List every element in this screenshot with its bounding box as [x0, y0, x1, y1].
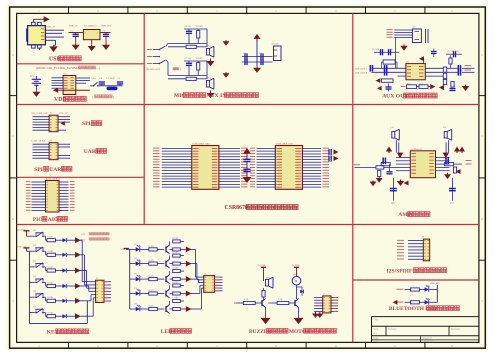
svg-text:AUX_OUT_L: AUX_OUT_L — [355, 67, 368, 70]
svg-text:R 470: R 470 — [149, 260, 154, 262]
svg-text:A: A — [481, 299, 483, 303]
svg-text:LS2: LS2 — [443, 127, 446, 129]
svg-text:B: B — [481, 217, 483, 221]
svg-text:LS1: LS1 — [391, 127, 394, 129]
svg-text:C12 104: C12 104 — [372, 49, 379, 51]
svg-text:I2S/SPDIF: I2S/SPDIF — [387, 268, 413, 274]
svg-text:[K1:MIC/AUX: [K1:MIC/AUX — [146, 68, 161, 71]
svg-text:R3 2K2: R3 2K2 — [196, 26, 203, 28]
svg-text:R 470: R 470 — [149, 305, 154, 307]
svg-text:R 10K: R 10K — [173, 252, 179, 254]
svg-text:M1: M1 — [293, 274, 296, 276]
svg-text:C17 104 X5R: C17 104 X5R — [447, 51, 459, 53]
svg-text:Drawn By:: Drawn By: — [423, 340, 434, 343]
svg-text:C22: C22 — [391, 203, 394, 205]
svg-text:R4 2K2: R4 2K2 — [196, 58, 203, 60]
svg-text:BT1: BT1 — [30, 76, 34, 78]
svg-text:R 1K: R 1K — [244, 299, 249, 301]
svg-text:VDD_3V3: VDD_3V3 — [101, 26, 112, 28]
svg-text:File:: File: — [374, 340, 379, 343]
svg-text:J9: J9 — [422, 237, 424, 239]
svg-text:R 10K: R 10K — [173, 298, 179, 300]
svg-text:VDD_3V3: VDD_3V3 — [59, 113, 70, 115]
svg-text:SPI: SPI — [82, 121, 91, 127]
svg-text:AUX IN: AUX IN — [206, 93, 227, 99]
svg-text:D1: D1 — [135, 244, 137, 246]
svg-text:R 10K: R 10K — [48, 267, 54, 269]
svg-text:C7 104: C7 104 — [185, 58, 191, 60]
svg-text:MIC2: MIC2 — [206, 77, 211, 79]
svg-text:USB_5V: USB_5V — [69, 26, 78, 28]
svg-text:Revision: Revision — [451, 328, 461, 331]
svg-text:2: 2 — [97, 33, 98, 35]
svg-text:C10: C10 — [243, 53, 246, 55]
svg-text:[R9-0R: CSR_3V3/SPK_5V/VBAT: [R9-0R: CSR_3V3/SPK_5V/VBAT — [36, 66, 79, 70]
svg-text:R 470: R 470 — [149, 246, 154, 248]
svg-text:C: C — [12, 134, 14, 138]
svg-text:R 10K: R 10K — [48, 282, 54, 284]
svg-text:D4: D4 — [135, 288, 137, 290]
svg-text:J2 HEADER 15X2: J2 HEADER 15X2 — [276, 142, 294, 145]
svg-text:BZ1: BZ1 — [266, 277, 270, 279]
svg-text:Size: Size — [374, 328, 379, 331]
svg-text:K2: K2 — [34, 230, 36, 232]
svg-text:R 470: R 470 — [149, 276, 154, 278]
svg-text:R 10K: R 10K — [48, 297, 54, 299]
svg-text:R11: R11 — [390, 49, 393, 51]
svg-text:R 10K: R 10K — [173, 268, 179, 270]
svg-text:R14: R14 — [420, 83, 423, 85]
svg-text:SW1: SW1 — [92, 78, 96, 80]
svg-text:]: ] — [113, 95, 114, 99]
svg-text:UART_TX RX: UART_TX RX — [32, 140, 46, 143]
svg-text:Number: Number — [388, 328, 397, 331]
svg-text:R13: R13 — [407, 83, 410, 85]
svg-text:U4 TPA6112: U4 TPA6112 — [411, 148, 422, 151]
svg-text:VDD_3V3: VDD_3V3 — [430, 283, 441, 285]
svg-text:J6 HEADER 11: J6 HEADER 11 — [46, 177, 60, 180]
svg-text:A: A — [12, 299, 14, 303]
svg-text:J1 HEADER 15X2: J1 HEADER 15X2 — [192, 142, 210, 145]
svg-text:J10: J10 — [413, 27, 416, 29]
svg-text:Title: Title — [374, 318, 379, 322]
svg-text:R 10K: R 10K — [48, 313, 54, 315]
svg-text:R 1K: R 1K — [278, 299, 283, 301]
svg-text:D2: D2 — [135, 258, 137, 260]
svg-text:D: D — [12, 53, 14, 57]
svg-text:AUX_OUT_R: AUX_OUT_R — [355, 71, 368, 74]
svg-text:B: B — [12, 217, 14, 221]
svg-text:3: 3 — [85, 33, 86, 35]
svg-text:R 10K: R 10K — [48, 237, 54, 239]
svg-text:K3: K3 — [34, 245, 36, 247]
svg-text:K4: K4 — [34, 261, 36, 263]
svg-text:K5: K5 — [34, 276, 36, 278]
svg-text:C11: C11 — [259, 53, 262, 55]
svg-text:J2 AUX: J2 AUX — [272, 43, 279, 46]
svg-text:K7: K7 — [34, 306, 36, 308]
svg-text:R 10K: R 10K — [173, 238, 179, 240]
svg-text:SPI: SPI — [34, 167, 43, 173]
svg-text:R 10K: R 10K — [173, 282, 179, 284]
svg-text:C: C — [481, 134, 483, 138]
svg-text:R 10K: R 10K — [48, 251, 54, 253]
svg-text:VDD_3V3: VDD_3V3 — [17, 246, 28, 248]
svg-text:L1 10uH: L1 10uH — [107, 78, 115, 80]
svg-text:D3: D3 — [135, 274, 137, 276]
svg-text:[: [ — [93, 95, 94, 99]
svg-text:U1 AMS1117: U1 AMS1117 — [84, 25, 98, 28]
svg-text:D5: D5 — [135, 304, 137, 306]
svg-text:C23: C23 — [450, 203, 453, 205]
svg-text:R 470: R 470 — [149, 290, 154, 292]
svg-text:CSR8670: CSR8670 — [225, 205, 248, 211]
svg-text:USB_5V: USB_5V — [47, 25, 56, 28]
svg-text:U2: U2 — [64, 74, 67, 76]
svg-text:SPI_CS SPI_CLK: SPI_CS SPI_CLK — [32, 113, 49, 115]
svg-text:-- ]: -- ] — [97, 66, 101, 70]
svg-text:C1: C1 — [71, 31, 73, 33]
svg-text:D: D — [481, 53, 483, 57]
svg-text:C6 104: C6 104 — [185, 26, 191, 28]
svg-text:MIC1: MIC1 — [206, 45, 211, 47]
svg-text:C2: C2 — [103, 31, 105, 33]
svg-text:K6: K6 — [34, 291, 36, 293]
